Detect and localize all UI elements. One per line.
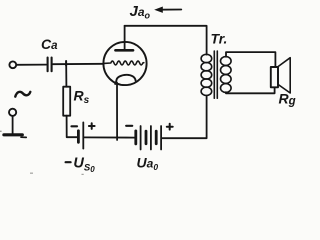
polarity minus (anode battery) (126, 125, 132, 127)
anode plate bar (116, 49, 134, 52)
wire input to capacitor (16, 64, 46, 66)
wire Rs to bias battery (67, 116, 77, 138)
node junction (grid leak tap) (65, 61, 67, 66)
input terminal (top) (9, 61, 16, 68)
tube V1 envelope (103, 42, 146, 85)
grid zigzag (104, 61, 144, 65)
ground tick (21, 136, 26, 138)
svg-text:Tr.: Tr. (211, 31, 228, 47)
capacitor Ca (48, 58, 52, 72)
transformer core (214, 51, 217, 98)
anode lead (124, 26, 126, 50)
AC source symbol (15, 92, 30, 97)
wire secondary top to speaker (226, 52, 275, 67)
polarity minus (bias battery) (72, 125, 78, 127)
wire bottom rail (bias battery to anode battery) (84, 136, 135, 138)
cathode lead (116, 83, 118, 141)
wire primary bottom lead (162, 96, 206, 139)
wire junction to Rs (65, 64, 67, 87)
transformer secondary coil (221, 57, 232, 93)
wire capacitor to tube grid (53, 63, 104, 65)
faint scan specks (0, 131, 84, 175)
battery -Us0 (77, 131, 80, 143)
speaker frame (271, 67, 278, 87)
ground bar (4, 133, 22, 136)
ground terminal circle (9, 109, 16, 116)
cathode (115, 75, 135, 84)
speaker horn (278, 58, 290, 93)
transformer primary coil (201, 54, 212, 95)
wire secondary bottom to speaker (226, 87, 275, 93)
label -Us0 (66, 161, 71, 163)
current arrow Ja0 (159, 9, 181, 11)
ground stem (12, 116, 14, 134)
battery Ua0 (136, 126, 161, 150)
polarity plus (anode battery) (167, 124, 173, 130)
wire anode top run (125, 26, 207, 55)
resistor Rs (63, 87, 70, 116)
polarity plus (bias battery) (89, 123, 95, 129)
